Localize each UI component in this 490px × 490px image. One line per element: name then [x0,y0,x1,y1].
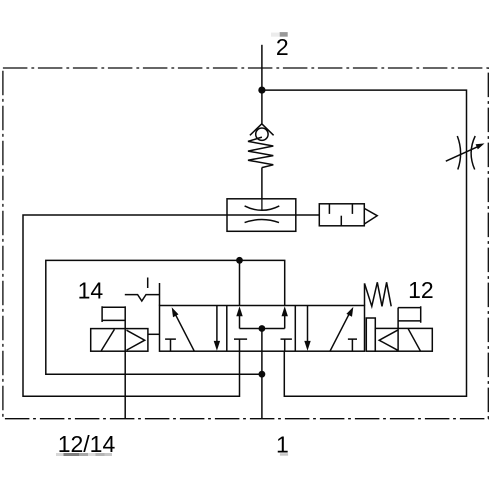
svg-text:1: 1 [276,432,289,458]
svg-text:12: 12 [408,277,434,303]
svg-text:12/14: 12/14 [58,431,116,457]
svg-text:2: 2 [276,34,289,60]
svg-text:14: 14 [78,277,104,303]
